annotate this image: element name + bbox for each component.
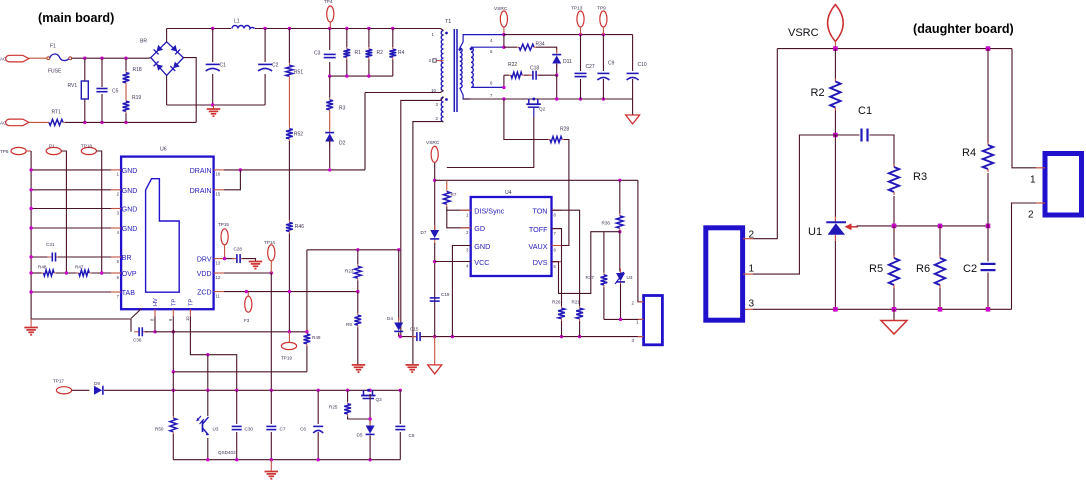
transformer T1 core: [453, 29, 455, 112]
pin U6 GND 3 stub: [111, 208, 121, 210]
junction y390 U2: [206, 389, 209, 392]
junction sec bus C27: [579, 97, 582, 100]
capacitor C18: [528, 74, 533, 76]
svg-text:U4: U4: [505, 190, 512, 196]
ground secondary: [626, 115, 640, 124]
svg-text:D4: D4: [387, 316, 393, 321]
wire D11 to snub line: [556, 64, 558, 75]
wire VSRC col a: [434, 163, 436, 230]
resistor R23: [357, 264, 359, 266]
capacitor C2 d: [981, 263, 996, 265]
svg-text:U3: U3: [213, 427, 219, 432]
wire R8 to gnd: [357, 327, 359, 365]
resistor R47: [77, 272, 79, 274]
svg-text:DIS/Sync: DIS/Sync: [474, 207, 504, 216]
svg-text:C15: C15: [410, 327, 419, 332]
wire R52-R46: [288, 141, 290, 220]
wire VDD net: [224, 272, 271, 274]
junction mid R6: [938, 224, 943, 229]
junction BR line: [29, 255, 32, 258]
pin U6 bottom TP 9 stub: [172, 309, 174, 316]
junction d-bus R6: [938, 307, 943, 312]
test point TP19: [281, 342, 296, 349]
pin U6 DRAIN 16 stub: [214, 169, 224, 171]
resistor R18: [125, 71, 127, 73]
svg-text:1: 1: [636, 320, 639, 325]
wire R7 to DIS: [447, 207, 471, 211]
svg-text:C31: C31: [46, 242, 55, 247]
wire daughter top bus: [777, 48, 1012, 50]
resistor R34: [517, 46, 519, 48]
svg-text:ZCD: ZCD: [197, 290, 211, 297]
wire U1 anode: [834, 241, 836, 309]
ref arrow U1: [848, 226, 858, 228]
wire JR pin2 net: [1012, 203, 1037, 309]
junction pin9 node: [172, 370, 175, 373]
pin U4 VAUX stub: [552, 245, 562, 247]
resistor RT1: [47, 121, 49, 123]
resistor R37: [603, 273, 605, 275]
junction d-bus U1: [833, 307, 838, 312]
wire R4 col: [987, 49, 989, 144]
svg-text:T1: T1: [445, 19, 451, 25]
pin U6 OVP 6 stub: [111, 272, 121, 274]
wire R46 down to C36 net: [288, 234, 290, 332]
svg-text:F3: F3: [244, 318, 250, 323]
wire U6 GND4: [31, 227, 111, 229]
diode D4: [398, 318, 400, 323]
resistor R19: [125, 99, 127, 101]
junction C2 top: [263, 27, 266, 30]
fuse F1: [47, 57, 50, 60]
wire TP17 net: [104, 389, 400, 391]
svg-text:GND: GND: [122, 226, 138, 233]
svg-text:R3: R3: [339, 106, 346, 112]
wire R7 to GD: [447, 210, 471, 228]
junction rail U2: [206, 458, 209, 461]
junction OVP TP18: [100, 271, 103, 274]
svg-text:VSRC: VSRC: [426, 140, 440, 146]
pin U6 GND 1 stub: [111, 169, 121, 171]
pin JR 2 stub: [1036, 202, 1045, 204]
pin T1 pin3 stub: [436, 60, 444, 62]
svg-text:R8: R8: [346, 322, 352, 327]
pin U6 GND 4 stub: [111, 227, 121, 229]
junction OVP P1: [65, 271, 68, 274]
resistor R21: [579, 306, 581, 308]
svg-text:TP: TP: [171, 299, 177, 306]
wire C30 col: [236, 390, 238, 424]
svg-text:C27: C27: [586, 64, 595, 70]
junction GND2: [29, 188, 32, 191]
svg-text:R25: R25: [329, 405, 338, 410]
ic U6 bottom diagonal pin: [131, 309, 142, 319]
junction y390 C8: [399, 389, 402, 392]
svg-text:TAB: TAB: [122, 290, 135, 297]
wire R23 to ZCD: [357, 280, 359, 291]
svg-text:12: 12: [216, 275, 221, 280]
wire R21 to rail: [579, 321, 581, 337]
svg-text:R19: R19: [132, 95, 141, 101]
junction VSRC bus: [502, 33, 505, 36]
svg-text:HV: HV: [153, 298, 159, 306]
svg-text:GND: GND: [122, 188, 138, 195]
resistor R46: [288, 220, 290, 222]
wire mid rail right: [421, 336, 644, 338]
capacitor C7: [266, 425, 276, 427]
wire R23 top: [357, 250, 359, 264]
diode D7: [434, 225, 436, 230]
wire R8 top: [357, 292, 359, 313]
junction d-bus R5: [892, 307, 897, 312]
svg-text:AC: AC: [0, 121, 7, 126]
mosfet Q2: [528, 99, 530, 104]
pin U4 GD stub: [461, 227, 471, 229]
svg-text:BR: BR: [140, 39, 147, 45]
capacitor C3: [324, 53, 336, 55]
svg-text:C19: C19: [441, 292, 450, 297]
pin J3 stub: [638, 336, 644, 338]
resistor R26b: [561, 306, 563, 308]
svg-text:TP4: TP4: [324, 0, 333, 4]
junction mid rail R26: [560, 335, 563, 338]
svg-text:TP18: TP18: [81, 143, 92, 148]
junction sec bus x504: [502, 97, 505, 100]
pin U4 TOFF stub: [552, 228, 562, 230]
svg-text:BR: BR: [122, 255, 132, 262]
svg-text:C2: C2: [963, 263, 977, 275]
pin U6 bottom HV 8 stub: [154, 309, 156, 316]
wire bridge top to HV bus: [166, 29, 168, 42]
junction y390 C30: [235, 389, 238, 392]
pin U4 TON stub: [552, 209, 562, 211]
transformer sec outer dot: [458, 48, 461, 51]
transformer T1 lower winding: [441, 97, 443, 122]
junction clamp bus C3: [328, 74, 331, 77]
wire pin8 rail: [155, 331, 307, 333]
capacitor C27: [575, 72, 587, 74]
wire drain to T1 pin10: [364, 93, 366, 170]
svg-text:(daughter board): (daughter board): [913, 22, 1014, 36]
wire R36-R37 link: [604, 231, 620, 233]
wire R2 col: [834, 49, 836, 79]
svg-text:C9: C9: [608, 61, 615, 67]
svg-text:R3: R3: [913, 171, 927, 183]
pin U4 DVS stub: [552, 261, 562, 263]
capacitor C36: [134, 331, 139, 333]
wire sec top bus: [504, 34, 633, 36]
svg-text:QSD402: QSD402: [218, 450, 236, 455]
wire U6 GND2: [31, 189, 111, 191]
svg-text:C7: C7: [280, 427, 286, 432]
svg-text:D5: D5: [357, 433, 363, 438]
wire U1 col top: [834, 135, 836, 217]
svg-text:R4: R4: [398, 50, 405, 56]
wire C6 col: [317, 390, 319, 424]
svg-text:TP5: TP5: [0, 149, 9, 154]
junction y390 R25: [346, 389, 349, 392]
junction VDD: [270, 271, 273, 274]
svg-text:2: 2: [631, 301, 634, 306]
capacitor C10: [627, 72, 639, 74]
wire U4 GND3 drop: [452, 246, 470, 337]
svg-text:TP13: TP13: [571, 6, 583, 12]
junction TP4/C3: [328, 27, 331, 30]
svg-text:R48: R48: [38, 265, 47, 270]
diode D5: [369, 421, 371, 426]
resistor R6 d: [939, 255, 941, 258]
wire JL pin2 net: [753, 49, 777, 239]
wire VSRC col b: [434, 243, 436, 337]
junction clamp bus R1: [345, 74, 348, 77]
junction ZCD R46: [288, 290, 291, 293]
wire C27 column: [580, 35, 582, 71]
svg-text:15: 15: [216, 192, 221, 197]
svg-text:R1: R1: [355, 50, 362, 56]
test point TP18: [81, 147, 96, 154]
transformer primary dot: [445, 32, 448, 35]
wire R28 to VAUX column: [552, 140, 569, 246]
wire RV1 column: [84, 58, 86, 81]
junction pin1 U3: [619, 318, 622, 321]
wire bridge bottom to gnd rail: [166, 75, 168, 105]
wire VSRC to pin5 line: [503, 35, 505, 48]
wire D2 to drain net: [329, 139, 331, 168]
wire BR line right: [58, 256, 111, 258]
connector AC top: [6, 55, 29, 62]
test point VSRC sec: [500, 11, 507, 27]
wire C10 to ground: [632, 99, 634, 115]
wire C3 column: [329, 29, 331, 51]
junction R18 top: [124, 57, 127, 60]
svg-text:(main board): (main board): [38, 11, 114, 25]
wire Q2 gate: [533, 107, 535, 116]
svg-text:TP9: TP9: [597, 6, 606, 12]
wire R28 feed: [504, 99, 548, 140]
junction fb R23: [356, 248, 359, 251]
junction y390 Q3: [368, 389, 371, 392]
wire DRAIN15 merge: [224, 170, 240, 190]
capacitor C5: [96, 88, 107, 90]
wire R2 column: [368, 29, 370, 48]
test point TP17: [56, 387, 71, 394]
junction d-top R2: [833, 46, 838, 51]
svg-text:R18: R18: [133, 67, 142, 73]
junction DRAIN merge: [239, 168, 242, 171]
wire ZCD net: [224, 291, 358, 293]
svg-text:VSRC: VSRC: [788, 27, 819, 39]
mosfet Q3: [363, 390, 365, 395]
svg-text:R50: R50: [155, 427, 164, 432]
bridge BR diodes: [154, 45, 163, 54]
wire feedback rail: [307, 249, 399, 251]
pin U6 ZCD 11 stub: [214, 291, 224, 293]
ground mid rail tri: [434, 337, 436, 365]
wire U4 VCC tap: [435, 261, 471, 263]
junction RV1 top: [83, 57, 86, 60]
svg-text:FUSE: FUSE: [48, 69, 62, 75]
pin U6 DRV 13 stub: [214, 258, 224, 260]
capacitor C8: [395, 425, 405, 427]
junction pin8 node: [153, 330, 156, 333]
junction pin6 line: [502, 86, 505, 89]
pin JR 1 stub: [1036, 167, 1045, 169]
wire snub left seg: [504, 74, 509, 76]
junction C5 bottom: [100, 121, 103, 124]
wire DVS net: [552, 232, 604, 294]
resistor R49: [306, 332, 308, 334]
wire TAB line: [31, 291, 111, 293]
wire AC bottom rail: [65, 121, 196, 123]
junction rail C6: [317, 458, 320, 461]
resistor R36: [619, 214, 621, 216]
junction D11 snub: [555, 74, 558, 77]
resistor R28: [548, 139, 550, 141]
junction C5 top: [100, 57, 103, 60]
wire aux bottom lead: [471, 86, 504, 88]
svg-text:R36: R36: [602, 221, 611, 226]
wire d ground stem: [893, 309, 895, 320]
wire U2 col upper: [207, 355, 209, 391]
varistor RV1: [81, 81, 88, 99]
wire JR pin1 net: [1012, 49, 1036, 168]
wire gate drive: [447, 117, 534, 168]
ground daughter: [881, 321, 907, 335]
wire R50 col: [172, 372, 174, 416]
ground bottom rail: [270, 460, 272, 471]
svg-text:C8: C8: [409, 433, 415, 438]
wire mid rail left: [399, 336, 416, 338]
wire R6 col: [939, 226, 941, 256]
wire gnd rail: [167, 104, 266, 106]
wire R25 drop: [347, 390, 349, 401]
resistor R3: [329, 98, 331, 100]
inductor L1 gap cover: [231, 26, 255, 31]
svg-text:C1: C1: [220, 63, 227, 69]
wire R26b to rail: [561, 321, 563, 337]
wire U6 GND3: [31, 208, 111, 210]
pin JL 2 stub: [743, 238, 753, 240]
junction R51 top: [288, 27, 291, 30]
junction d-top R4: [986, 46, 991, 51]
test point F3: [245, 296, 252, 312]
wire TP17 to D9: [72, 389, 90, 391]
connector AC bottom: [6, 119, 29, 126]
svg-text:R47: R47: [75, 265, 84, 270]
svg-text:GD: GD: [474, 224, 485, 233]
svg-text:C1: C1: [858, 105, 872, 117]
junction TP9 bus: [602, 33, 605, 36]
wire C1 left: [835, 134, 859, 136]
wire U2 col: [207, 390, 209, 416]
wire R18 column: [125, 58, 127, 70]
wire sec outer top lead: [460, 35, 505, 48]
transistor U2: [202, 420, 204, 432]
wire OVP line c: [91, 272, 111, 274]
svg-text:C10: C10: [638, 62, 647, 68]
wire conn pin2 net: [638, 180, 644, 301]
svg-text:C28: C28: [234, 247, 243, 252]
junction Q3 R25: [368, 417, 371, 420]
test point VSRC mid: [431, 146, 438, 162]
pin U6 BR 5 stub: [111, 256, 121, 258]
junction R1 top: [345, 27, 348, 30]
resistor R4: [392, 47, 394, 49]
resistor R52: [288, 127, 290, 129]
wire VSRC tp stem: [834, 42, 836, 49]
wire C8 col: [399, 390, 401, 424]
ground R8: [352, 364, 366, 366]
wire OVP line a: [31, 272, 41, 274]
svg-text:F1: F1: [50, 43, 56, 49]
wire U6 GND1: [31, 169, 111, 171]
pin JL 1 stub: [743, 273, 753, 275]
svg-text:3: 3: [749, 299, 755, 310]
wire R4 column: [392, 29, 394, 48]
wire daughter bottom bus: [753, 308, 1012, 310]
wire conn pin1 net: [604, 318, 644, 320]
wire TP18 down: [97, 151, 102, 273]
pin J2 stub: [638, 301, 644, 303]
wire bottom rail: [173, 459, 400, 461]
capacitor C19: [430, 297, 440, 299]
wire pin8 drop: [154, 316, 156, 332]
svg-text:10: 10: [185, 316, 190, 321]
ground T1 pin2: [405, 364, 419, 366]
junction GND4: [29, 226, 32, 229]
svg-text:DRAIN: DRAIN: [190, 188, 212, 195]
pin JL 3 stub: [743, 308, 753, 310]
diode U3 led: [620, 268, 622, 273]
svg-text:U3: U3: [627, 275, 633, 280]
wire R1 column: [346, 29, 348, 48]
svg-text:R49: R49: [312, 335, 321, 340]
junction ZCD F3: [245, 290, 248, 293]
junction d-bus C2: [986, 307, 991, 312]
pin J1 stub: [638, 318, 644, 320]
wire AC bottom to RT1: [29, 121, 47, 123]
svg-text:C18: C18: [530, 66, 539, 72]
svg-text:R2: R2: [377, 50, 384, 56]
svg-text:VDD: VDD: [197, 271, 212, 278]
test point TP4: [327, 6, 334, 22]
svg-text:L1: L1: [234, 19, 240, 25]
resistor R22: [509, 74, 511, 76]
capacitor C1 d: [860, 129, 862, 142]
svg-text:R23: R23: [345, 269, 354, 274]
svg-text:R28: R28: [560, 127, 569, 133]
svg-text:AC: AC: [0, 57, 7, 62]
wire AC top to fuse: [29, 57, 47, 59]
junction D2 drain: [328, 168, 331, 171]
resistor R3 d: [893, 164, 895, 167]
junction C1 top: [211, 27, 214, 30]
transformer aux dot: [470, 47, 473, 50]
svg-text:TP19: TP19: [281, 356, 292, 361]
wire R3 to mid: [893, 196, 895, 226]
svg-text:16: 16: [216, 172, 221, 177]
capacitor C6: [313, 425, 323, 427]
svg-text:D9: D9: [94, 381, 100, 386]
junction ZCD R23: [356, 290, 359, 293]
pin U4 VCC stub: [461, 261, 471, 263]
wire DRV net: [224, 258, 234, 260]
resistor R50: [172, 416, 174, 418]
wire C3 to R3: [329, 76, 331, 98]
wire R6 to bus: [939, 288, 941, 309]
capacitor C2: [258, 63, 272, 65]
wire Q3 source col: [369, 394, 371, 424]
